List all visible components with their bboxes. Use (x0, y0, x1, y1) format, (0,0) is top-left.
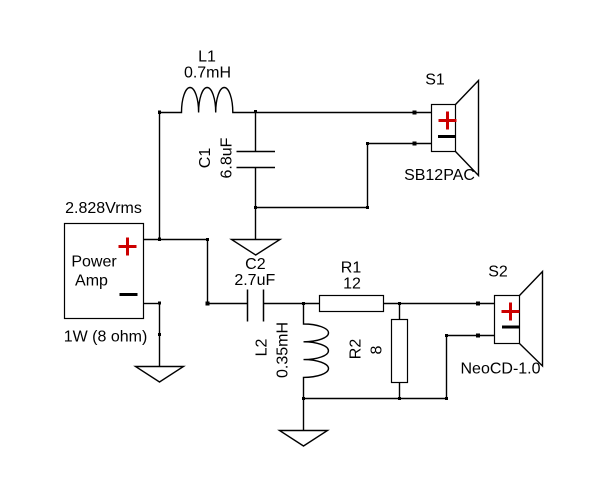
R2 value 8 (369, 345, 386, 354)
svg-text:Amp: Amp (75, 273, 108, 290)
svg-text:L2: L2 (254, 339, 271, 357)
node junction minus ground (158, 302, 161, 305)
R2 label (348, 339, 365, 360)
wire to C2 (208, 303, 248, 305)
capacitor C1 leads (255, 113, 257, 208)
svg-text:R2: R2 (348, 339, 365, 360)
node junction L1 left corner (158, 111, 161, 115)
svg-text:SB12PAC: SB12PAC (404, 167, 475, 184)
svg-text:12: 12 (343, 276, 361, 293)
S2 label (488, 264, 508, 281)
ground under L2 (280, 399, 328, 447)
node junction plus wire (158, 238, 161, 242)
node junction R2 top (398, 302, 401, 305)
wire R2 bottom (399, 383, 401, 399)
speaker S1 horn (456, 81, 479, 176)
svg-text:Power: Power (71, 254, 117, 271)
corner dot plus wire (206, 238, 209, 241)
wire node A up-left vertical to L1 (159, 113, 161, 240)
S2 plus symbol (502, 303, 520, 321)
capacitor C2 plates (248, 290, 264, 322)
pin dot S1 plus (413, 111, 417, 115)
svg-text:6.8uF: 6.8uF (219, 137, 236, 178)
S1 label (425, 72, 445, 89)
power amp box (65, 224, 144, 319)
svg-text:0.35mH: 0.35mH (275, 322, 292, 378)
power amp text Power (71, 254, 117, 271)
svg-text:R1: R1 (341, 260, 362, 277)
wire S2 return vertical (446, 336, 448, 399)
L1 value 0.7mH (184, 65, 231, 82)
node junction C1 top (254, 110, 257, 113)
node junction B (302, 302, 305, 305)
pin dot S1 minus (413, 142, 417, 146)
ground under C1 (232, 208, 281, 256)
svg-text:NeoCD-1.0: NeoCD-1.0 (460, 361, 540, 378)
wire to R2 (399, 304, 401, 320)
L2 label (254, 339, 271, 357)
svg-text:2.828Vrms: 2.828Vrms (65, 200, 142, 217)
pin dot S2 plus (476, 302, 480, 306)
wire to S1 minus (368, 143, 432, 145)
svg-text:C2: C2 (245, 256, 266, 273)
C1 value 6.8uF (219, 137, 236, 178)
speaker S1 body (432, 105, 456, 152)
wire down to C2 level (207, 240, 209, 304)
C2 value 2.7uF (234, 272, 275, 289)
corner dot S2 minus (445, 334, 448, 337)
source label 2.828Vrms (65, 200, 142, 217)
node junction L2 bottom (302, 397, 305, 400)
pin dot ground stub (158, 333, 161, 336)
svg-text:L1: L1 (198, 49, 216, 66)
C1 label (197, 148, 214, 169)
svg-text:S1: S1 (425, 72, 445, 89)
power amp text Amp (75, 273, 108, 290)
resistor R2 (392, 320, 408, 383)
svg-text:S2: S2 (488, 264, 508, 281)
pin dot S2 minus (476, 334, 480, 338)
S2 name NeoCD-1.0 (460, 361, 540, 378)
wire from plus terminal (144, 239, 208, 241)
wire from minus terminal (144, 303, 160, 305)
capacitor C1 plates (237, 152, 276, 168)
ground under power amp (136, 335, 184, 383)
wire S1 return horizontal (256, 207, 368, 209)
node junction R2 bottom (398, 397, 401, 400)
L1 label (198, 49, 216, 66)
wire R1 to S2 (384, 303, 495, 305)
corner dot S2 return (445, 397, 448, 400)
corner dot C2 level (206, 302, 210, 306)
S1 plus symbol (439, 112, 457, 130)
speaker S2 body (495, 296, 520, 344)
power amp plus terminal (119, 238, 137, 256)
rating label 1W (8 ohm) (64, 329, 148, 346)
resistor R1 (320, 296, 384, 312)
svg-text:2.7uF: 2.7uF (234, 272, 275, 289)
svg-text:C1: C1 (197, 148, 214, 169)
corner dot S1 minus (366, 142, 369, 145)
inductor L2 (304, 304, 329, 399)
speaker S2 horn (520, 272, 543, 367)
wire to S2 minus (447, 335, 495, 337)
inductor L1 (160, 87, 432, 112)
R1 value 12 (343, 276, 361, 293)
S1 name SB12PAC (404, 167, 475, 184)
corner dot return (366, 206, 369, 209)
wire S1 return vertical (367, 144, 369, 208)
R1 label (341, 260, 362, 277)
L2 value 0.35mH (275, 322, 292, 378)
bottom return wire (304, 398, 447, 400)
wire C2 to node B (264, 303, 320, 305)
S2 minus symbol (502, 326, 520, 329)
power amp minus terminal (120, 293, 138, 296)
node junction C1 bottom (254, 206, 257, 209)
svg-text:8: 8 (369, 345, 386, 354)
svg-text:0.7mH: 0.7mH (184, 65, 231, 82)
svg-text:1W (8 ohm): 1W (8 ohm) (64, 329, 148, 346)
S1 minus symbol (438, 135, 456, 138)
C2 label (245, 256, 266, 273)
wire minus down (159, 304, 161, 335)
